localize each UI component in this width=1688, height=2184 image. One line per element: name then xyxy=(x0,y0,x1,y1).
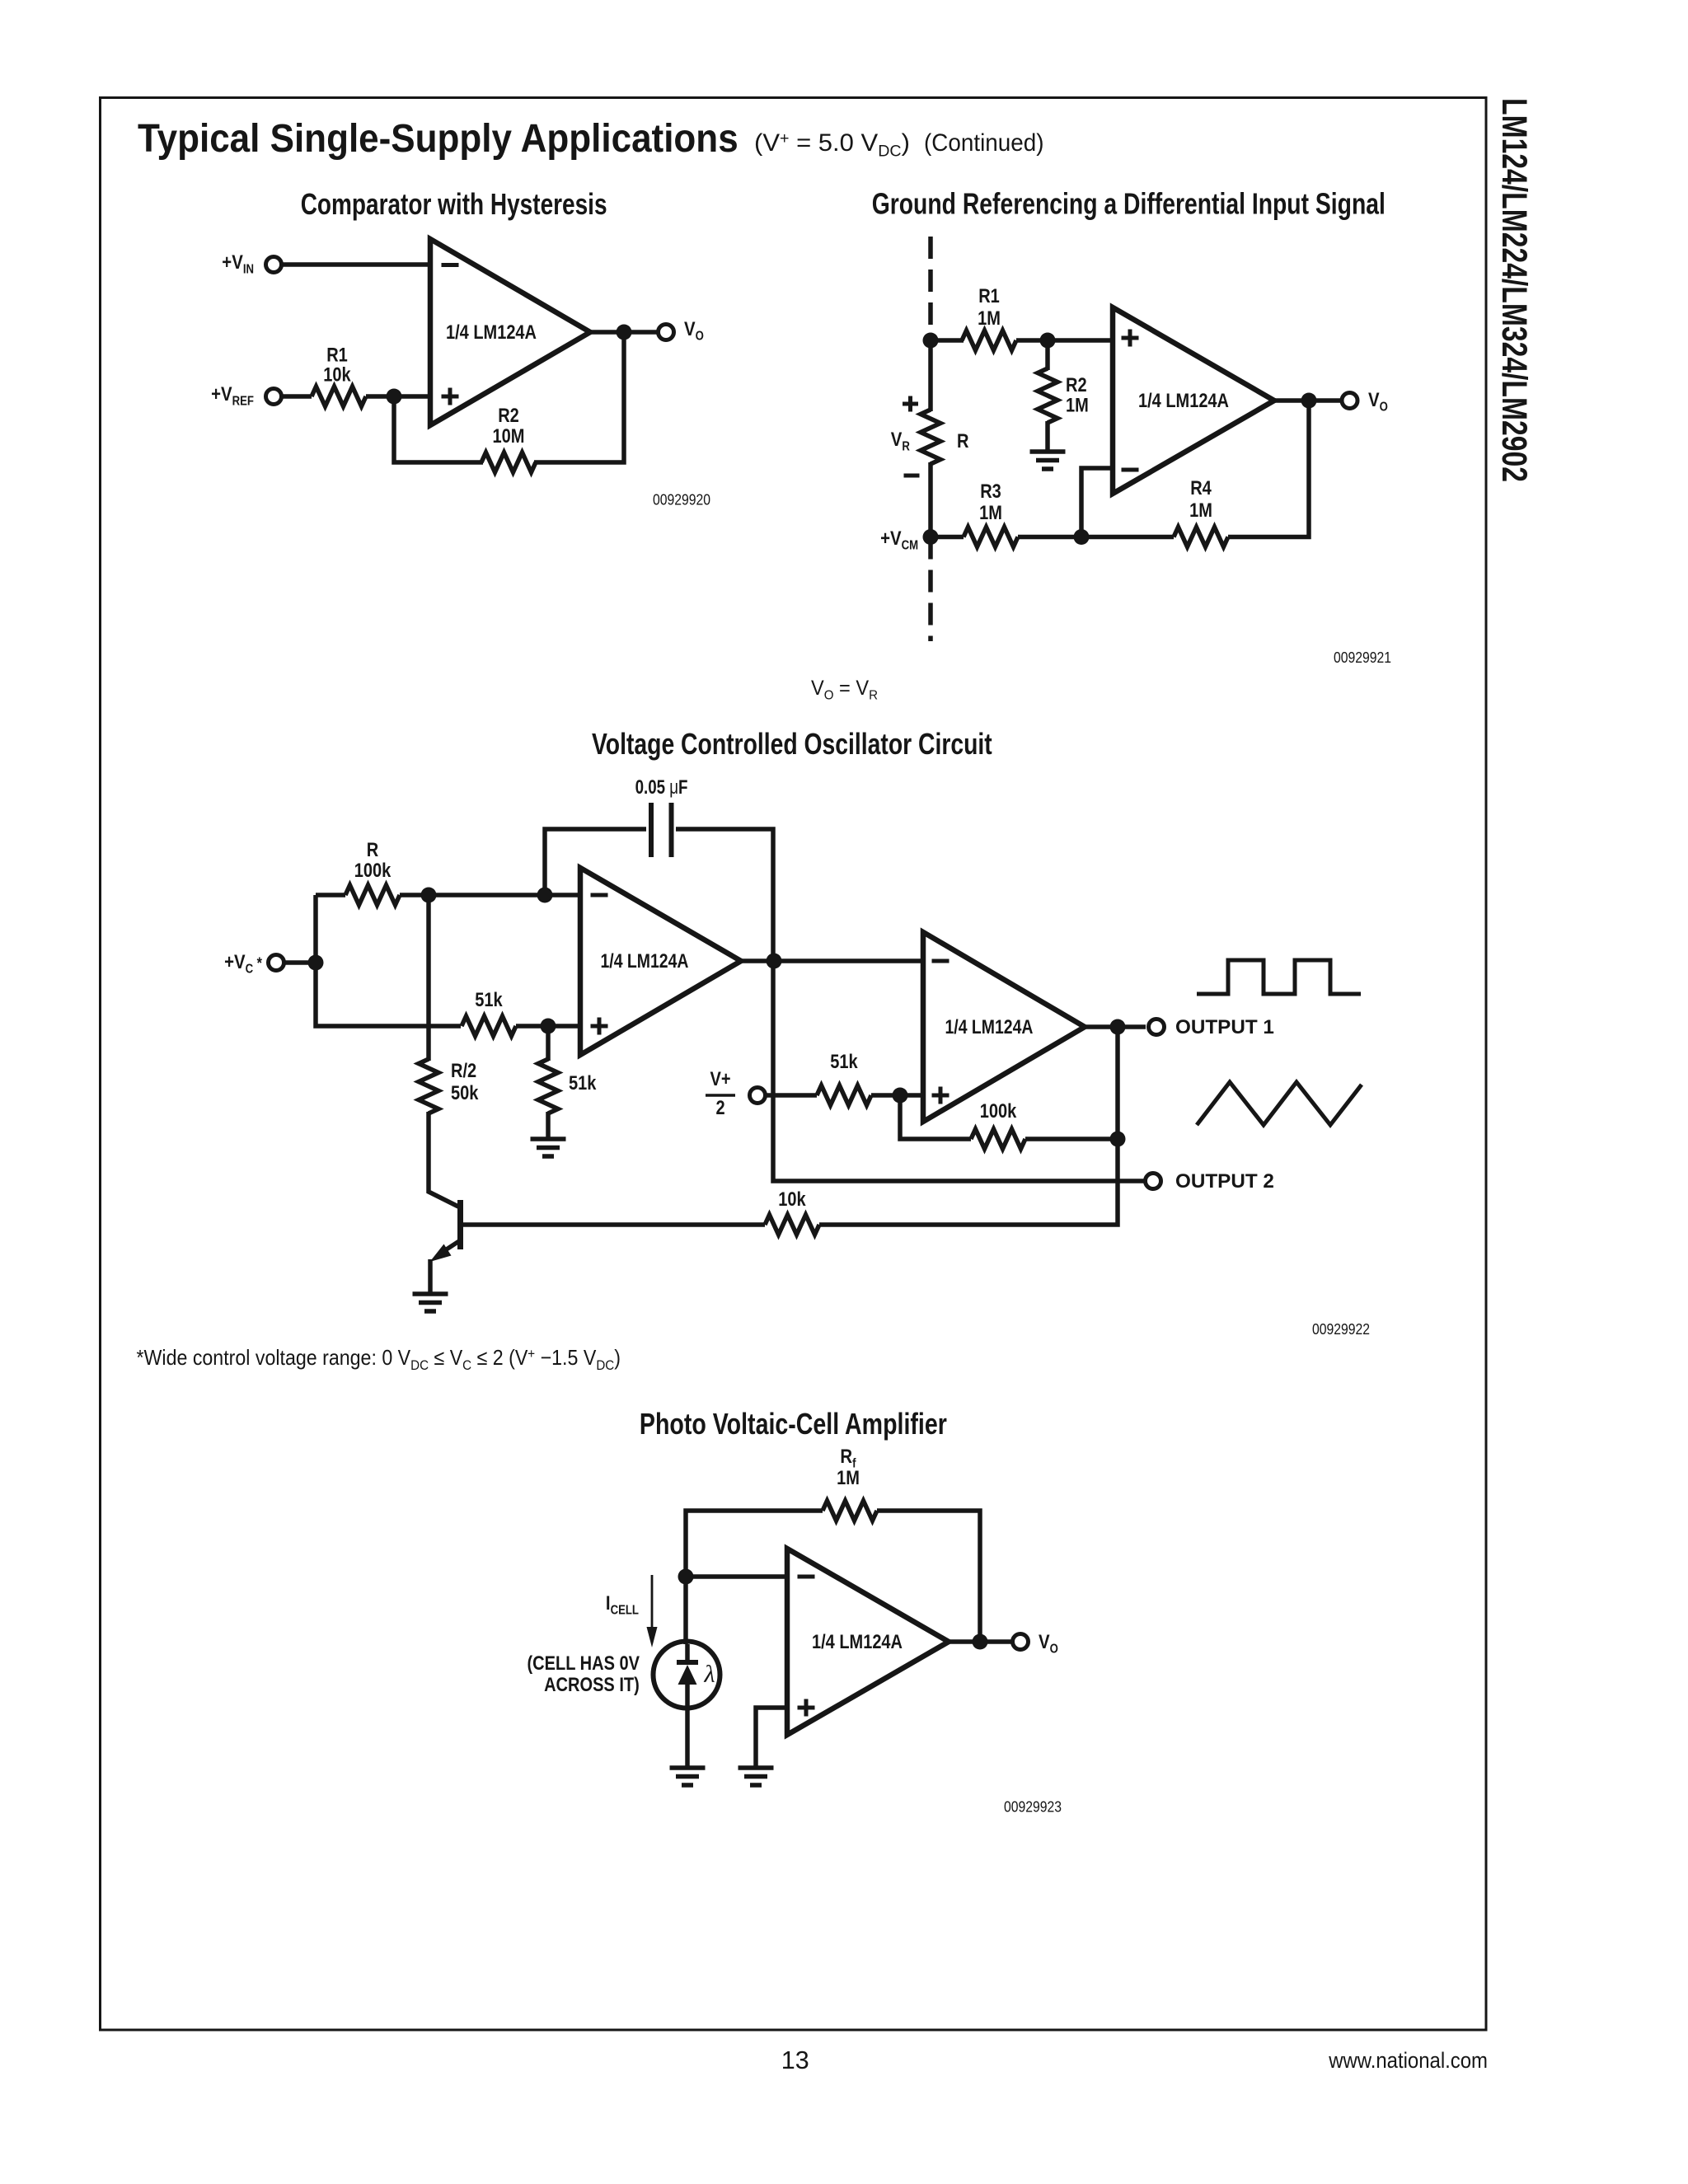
svg-text:00929920: 00929920 xyxy=(653,490,710,509)
svg-text:51k: 51k xyxy=(569,1071,597,1094)
svg-text:*Wide control voltage range: 0: *Wide control voltage range: 0 VDC ≤ VC … xyxy=(137,1346,621,1373)
svg-text:Photo Voltaic-Cell Amplifier: Photo Voltaic-Cell Amplifier xyxy=(640,1407,947,1441)
ground under R2 xyxy=(1030,452,1066,469)
svg-text:00929922: 00929922 xyxy=(1312,1320,1370,1338)
wire 51k-gnd lower lead xyxy=(546,1112,551,1139)
wire R4 to output xyxy=(1228,401,1309,537)
U4 noninverting input sign xyxy=(932,1087,949,1104)
svg-text:R/2: R/2 xyxy=(451,1059,476,1081)
page border frame xyxy=(101,98,1487,2031)
svg-text:Voltage Controlled Oscillator: Voltage Controlled Oscillator Circuit xyxy=(592,726,992,760)
wire left rail xyxy=(316,895,461,1026)
svg-text:1M: 1M xyxy=(837,1466,860,1488)
wire +VC to left rail xyxy=(284,960,316,965)
node +VC junction xyxy=(308,955,324,971)
svg-text:VO: VO xyxy=(684,317,704,343)
node U1 output xyxy=(617,325,632,340)
svg-text:+VC *: +VC * xyxy=(224,950,262,976)
svg-text:1/4 LM124A: 1/4 LM124A xyxy=(945,1015,1034,1038)
transistor Q1 emitter with arrow xyxy=(443,1240,461,1252)
transistor Q1 bar xyxy=(457,1200,463,1249)
wire R2 to ground xyxy=(1045,421,1050,452)
dashed reference line upper segment xyxy=(928,237,933,340)
U1 inverting input sign xyxy=(442,263,459,267)
wire feedback top left xyxy=(686,1511,823,1577)
wire top loop right xyxy=(676,829,1146,1181)
svg-text:VO: VO xyxy=(1039,1630,1058,1656)
resistor R 100k xyxy=(345,885,400,905)
svg-text:R: R xyxy=(367,838,379,860)
svg-text:λ: λ xyxy=(704,1661,715,1688)
svg-text:OUTPUT 2: OUTPUT 2 xyxy=(1175,1170,1274,1193)
node U2 output xyxy=(1301,393,1317,409)
svg-text:R2: R2 xyxy=(1066,373,1087,396)
node R1/R2 junction xyxy=(1040,333,1056,349)
node R3/R4/− junction xyxy=(1074,529,1090,545)
wire R2 upper lead xyxy=(1045,340,1050,370)
resistor R2 xyxy=(1038,368,1057,423)
wire V+/2 to 51k xyxy=(766,1093,817,1098)
wire VR upper lead xyxy=(928,340,933,411)
wire emitter to ground xyxy=(428,1259,433,1294)
resistor 10k xyxy=(765,1215,819,1235)
U2 noninverting input sign xyxy=(1122,330,1139,347)
wire 100k left leg xyxy=(900,1095,971,1139)
photodiode D1 anode triangle xyxy=(678,1665,697,1685)
U3 inverting input sign xyxy=(591,893,608,898)
resistor R1 xyxy=(962,330,1016,350)
svg-text:ICELL: ICELL xyxy=(606,1591,639,1617)
resistor R3 xyxy=(964,527,1018,547)
ground under 51k xyxy=(531,1139,566,1156)
wire VR lower lead xyxy=(928,462,933,537)
node 100k/OUTPUT1 rail xyxy=(1110,1132,1126,1147)
wire top loop left xyxy=(545,829,646,895)
svg-text:1/4 LM124A: 1/4 LM124A xyxy=(1138,389,1229,411)
wire 51k to U4 + input xyxy=(871,1093,923,1098)
svg-text:VR: VR xyxy=(891,428,911,453)
svg-text:0.05 μF: 0.05 μF xyxy=(635,776,688,799)
VR plus sign xyxy=(903,396,918,412)
terminal +VREF xyxy=(266,389,282,405)
square wave symbol xyxy=(1197,960,1361,994)
op-amp U4 1/4 LM124A xyxy=(923,932,1085,1122)
wire U4 output xyxy=(1085,1024,1146,1029)
svg-text:+VIN: +VIN xyxy=(222,251,254,276)
wire junction to photodiode xyxy=(683,1577,688,1644)
op-amp U2 1/4 LM124A xyxy=(1113,307,1274,494)
wire + input to ground xyxy=(756,1708,787,1768)
svg-text:www.national.com: www.national.com xyxy=(1328,2049,1488,2074)
svg-text:R: R xyxy=(957,429,969,452)
wire 10k to OUTPUT1 node xyxy=(819,1027,1118,1225)
U5 noninverting input sign xyxy=(798,1699,815,1717)
node U5 output xyxy=(973,1634,988,1650)
node junction R1/R2/+input xyxy=(387,389,402,405)
node R/R2 branch xyxy=(421,888,437,903)
svg-text:1M: 1M xyxy=(979,501,1002,523)
svg-text:100k: 100k xyxy=(354,859,392,881)
svg-text:100k: 100k xyxy=(980,1099,1017,1122)
terminal VO output xyxy=(659,325,674,340)
wire Q1 base left segment xyxy=(461,1222,766,1227)
wire cell to inverting input xyxy=(686,1574,787,1579)
op-amp U5 1/4 LM124A xyxy=(787,1549,949,1735)
svg-text:OUTPUT 1: OUTPUT 1 xyxy=(1175,1016,1274,1038)
terminal +VIN xyxy=(266,257,282,273)
wire +VREF to R1 xyxy=(282,394,312,399)
ICELL arrow xyxy=(651,1575,654,1630)
resistor 100k xyxy=(971,1129,1025,1149)
svg-text:VO = VR: VO = VR xyxy=(811,677,878,702)
VR minus sign xyxy=(904,474,920,478)
svg-text:1/4 LM124A: 1/4 LM124A xyxy=(812,1630,903,1652)
svg-text:2: 2 xyxy=(716,1096,725,1118)
triangle wave symbol xyxy=(1197,1082,1362,1125)
wire node to R1 xyxy=(931,338,964,343)
svg-text:+VCM: +VCM xyxy=(880,527,918,552)
svg-text:51k: 51k xyxy=(830,1050,858,1072)
terminal +VC xyxy=(269,955,284,971)
svg-text:LM124/LM224/LM324/LM2902: LM124/LM224/LM324/LM2902 xyxy=(1494,98,1534,482)
node cell/feedback junction xyxy=(678,1569,694,1585)
resistor 51k to ground xyxy=(538,1059,558,1113)
svg-text:V+: V+ xyxy=(710,1067,731,1090)
wire R3 to R4 xyxy=(1018,535,1174,540)
resistor Rf 1M xyxy=(823,1501,877,1521)
wire photodiode to ground xyxy=(685,1685,690,1768)
svg-text:R3: R3 xyxy=(980,480,1001,502)
svg-text:00929921: 00929921 xyxy=(1334,649,1391,667)
resistor 51k (to + input) xyxy=(462,1016,516,1036)
resistor R (VR) xyxy=(921,410,940,464)
resistor R1 xyxy=(312,387,366,406)
svg-text:10k: 10k xyxy=(323,363,351,386)
photodiode D1 cathode bar xyxy=(677,1660,698,1665)
svg-text:1M: 1M xyxy=(1189,499,1212,521)
wire VCM to R3 xyxy=(931,535,964,540)
wire feedback right segment xyxy=(534,332,624,462)
svg-text:(CELL HAS 0V: (CELL HAS 0V xyxy=(527,1652,640,1674)
wire R/2 upper lead xyxy=(426,895,431,1061)
svg-text:00929923: 00929923 xyxy=(1004,1797,1062,1816)
U5 inverting input sign xyxy=(798,1575,815,1579)
node OUTPUT 1 xyxy=(1110,1019,1126,1035)
svg-text:10M: 10M xyxy=(493,424,525,447)
terminal OUTPUT 2 xyxy=(1146,1174,1161,1189)
resistor R/2 50k xyxy=(419,1059,438,1113)
svg-text:+VREF: +VREF xyxy=(211,382,254,408)
wire junction to − input xyxy=(1081,468,1113,537)
svg-text:51k: 51k xyxy=(475,988,503,1010)
svg-text:Ground Referencing a Different: Ground Referencing a Differential Input … xyxy=(872,186,1386,220)
svg-text:13: 13 xyxy=(781,2046,809,2074)
op-amp U3 1/4 LM124A xyxy=(580,868,741,1055)
svg-text:10k: 10k xyxy=(778,1188,806,1210)
resistor 51k (V+/2) xyxy=(817,1085,871,1105)
terminal VO output xyxy=(1013,1634,1029,1650)
ground under photodiode xyxy=(670,1768,706,1785)
U2 inverting input sign xyxy=(1122,468,1139,472)
wire U5 output xyxy=(949,1639,1012,1644)
resistor R4 xyxy=(1174,527,1228,547)
U1 noninverting input sign xyxy=(442,388,459,405)
node U3 output xyxy=(767,954,782,969)
wire R to inverting node xyxy=(400,893,580,898)
node + input/100k junction xyxy=(893,1088,908,1104)
op-amp U1 1/4 LM124A xyxy=(430,239,590,425)
svg-text:1/4 LM124A: 1/4 LM124A xyxy=(446,321,537,343)
resistor R2 xyxy=(481,452,536,472)
dashed reference line lower segment xyxy=(928,537,933,642)
ground under Q1 emitter xyxy=(413,1294,448,1311)
ground under + input xyxy=(738,1768,774,1785)
U4 inverting input sign xyxy=(932,959,949,963)
node +input/51k-gnd junction xyxy=(541,1019,556,1034)
wire feedback left segment xyxy=(394,396,483,462)
svg-text:1/4 LM124A: 1/4 LM124A xyxy=(601,949,689,972)
svg-text:R1: R1 xyxy=(978,284,1000,307)
terminal V+/2 xyxy=(750,1088,766,1104)
svg-text:1M: 1M xyxy=(978,307,1001,329)
svg-text:Comparator with Hysteresis: Comparator with Hysteresis xyxy=(301,187,607,220)
wire R1 to noninverting input xyxy=(366,394,430,399)
wire feedback top right xyxy=(877,1511,980,1642)
svg-text:R2: R2 xyxy=(498,404,519,426)
capacitor C1 0.05uF plates xyxy=(651,803,672,857)
wire 100k to OUTPUT1 rail xyxy=(1025,1137,1118,1141)
wire 51k to + input xyxy=(516,1024,580,1029)
terminal VO output xyxy=(1342,393,1357,409)
U3 noninverting input sign xyxy=(591,1018,608,1035)
svg-text:ACROSS IT): ACROSS IT) xyxy=(544,1673,640,1695)
wire 51k-gnd upper lead xyxy=(546,1026,551,1061)
wire U2 output xyxy=(1274,398,1342,403)
node VR top xyxy=(923,333,939,349)
photodiode D1 circle xyxy=(654,1642,720,1708)
terminal OUTPUT 1 xyxy=(1149,1019,1165,1035)
svg-text:50k: 50k xyxy=(451,1081,479,1104)
wire U3 output to U4 inverting input xyxy=(741,958,923,963)
svg-text:(V+ = 5.0 VDC): (V+ = 5.0 VDC) xyxy=(754,129,910,160)
wire U1 output xyxy=(590,330,658,335)
node cap/inverting input xyxy=(537,888,553,903)
svg-text:(Continued): (Continued) xyxy=(924,129,1043,157)
svg-text:R4: R4 xyxy=(1190,476,1212,499)
svg-text:1M: 1M xyxy=(1066,394,1089,416)
wire R1 to + input xyxy=(1016,338,1113,343)
svg-text:Typical Single-Supply Applicat: Typical Single-Supply Applications xyxy=(138,115,738,160)
wire R left lead corner xyxy=(316,893,345,898)
wire +VIN to inverting input xyxy=(282,262,430,267)
svg-text:VO: VO xyxy=(1368,388,1388,414)
wire R/2 to transistor collector xyxy=(429,1112,458,1207)
node +VCM xyxy=(923,529,939,545)
